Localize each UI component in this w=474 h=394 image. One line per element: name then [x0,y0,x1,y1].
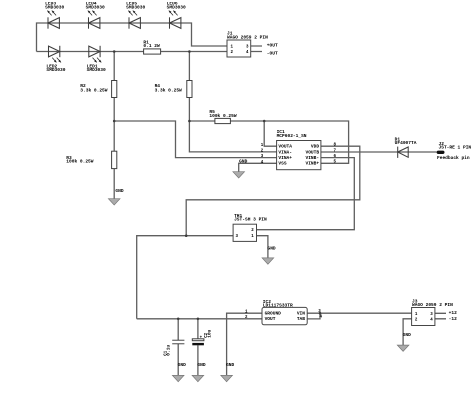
svg-text:GND: GND [403,334,412,338]
svg-text:GND: GND [197,364,206,368]
svg-text:-OUT: -OUT [267,53,278,57]
svg-text:Feedback pin: Feedback pin [437,156,470,161]
svg-text:+OUT: +OUT [267,44,278,48]
svg-text:JST-SH 3 PIN: JST-SH 3 PIN [234,219,267,223]
svg-text:SMD3030: SMD3030 [126,6,146,10]
svg-text:VOUTB: VOUTB [306,151,320,155]
svg-text:100k 0.25W: 100k 0.25W [209,114,237,119]
svg-text:VSS: VSS [278,163,287,167]
svg-text:SMD3030: SMD3030 [45,6,65,10]
svg-text:SMD3030: SMD3030 [167,6,187,10]
svg-text:GND: GND [268,248,277,252]
svg-text:0.1 2W: 0.1 2W [143,45,160,49]
svg-text:7: 7 [334,149,337,153]
svg-text:LD1117S33TR: LD1117S33TR [263,305,293,309]
svg-text:R2: R2 [80,85,86,89]
svg-text:GND: GND [239,161,248,165]
svg-text:SMD3030: SMD3030 [46,69,66,73]
svg-text:GND: GND [115,190,124,194]
svg-text:MCP602-1_SN: MCP602-1_SN [277,135,307,139]
svg-text:UF4007TA: UF4007TA [395,142,417,146]
svg-text:SMD3030: SMD3030 [87,69,107,73]
svg-text:WAGO 2059 2 PIN: WAGO 2059 2 PIN [227,36,268,40]
svg-text:100k 0.25W: 100k 0.25W [66,160,94,165]
svg-text:SMD3030: SMD3030 [86,6,106,10]
svg-text:-12: -12 [449,318,458,322]
svg-text:3.3k 0.25W: 3.3k 0.25W [155,89,183,94]
svg-text:1: 1 [261,144,264,148]
svg-text:10u: 10u [209,329,213,338]
svg-text:JST-RE 1 PIN: JST-RE 1 PIN [439,147,472,151]
svg-text:GROUND: GROUND [265,313,282,317]
svg-text:VINA-: VINA- [278,151,292,155]
svg-text:4: 4 [320,316,323,320]
svg-text:0.1u: 0.1u [168,344,172,355]
svg-text:3.3k 0.25W: 3.3k 0.25W [80,89,108,94]
svg-text:GND: GND [226,364,235,368]
svg-text:VIN: VIN [297,313,306,317]
svg-text:+12: +12 [449,312,458,316]
svg-text:VINA+: VINA+ [278,157,292,161]
svg-text:TAB: TAB [297,318,306,322]
svg-text:GND: GND [178,364,187,368]
svg-text:R4: R4 [155,85,161,89]
svg-text:WAGO 2059 2 PIN: WAGO 2059 2 PIN [412,304,453,308]
svg-text:VOUT: VOUT [265,318,276,322]
svg-text:VINB+: VINB+ [306,163,320,167]
svg-text:VOUTA: VOUTA [278,146,292,150]
svg-text:VDD: VDD [311,146,320,150]
svg-text:VINB-: VINB- [306,157,320,161]
svg-text:2: 2 [245,316,248,320]
